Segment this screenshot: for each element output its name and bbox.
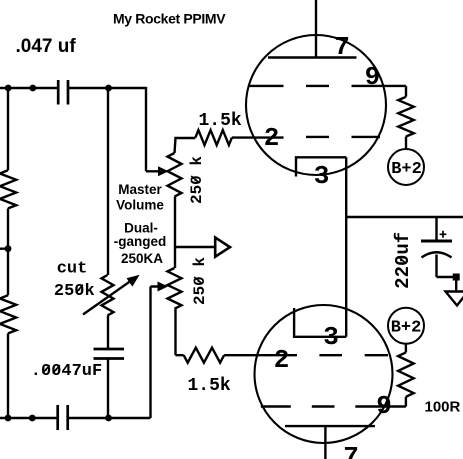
wire resistor to B+2 top <box>405 137 407 150</box>
svg-text:9: 9 <box>376 391 392 421</box>
wire 220uf top lead <box>435 217 437 241</box>
ground symbol <box>446 292 463 306</box>
svg-text:cut: cut <box>57 259 88 278</box>
wire V1 pin7 top lead <box>315 0 317 58</box>
wire cut branch vertical <box>107 88 109 418</box>
wire resistor to B+2 bottom <box>405 344 407 353</box>
potentiometer master volume bottom 250k <box>168 268 182 309</box>
svg-text:7: 7 <box>343 442 359 459</box>
V2 cathode notch pin3 <box>294 308 346 337</box>
capacitor 220uf curved plate <box>422 252 452 257</box>
svg-text:B+2: B+2 <box>391 319 422 338</box>
resistor left upper <box>0 170 16 208</box>
resistor 1.5k bottom <box>184 348 224 363</box>
V1 plate line <box>268 56 357 58</box>
wire bottom pot to 1.5k <box>176 308 184 355</box>
svg-text:1.5k: 1.5k <box>188 376 231 396</box>
supply circle B+2 top <box>388 149 424 185</box>
V1 grid dashed line pin2 <box>306 136 380 138</box>
V2 grid dashed line pin2 <box>319 354 388 356</box>
wire V1 pin3 down to V2 pin3 <box>345 157 347 336</box>
svg-text:100R: 100R <box>425 399 461 416</box>
tube V2 envelope <box>255 305 393 443</box>
wire top pot to 1.5k <box>175 138 196 153</box>
wire to phase buffer <box>175 246 215 248</box>
wiper arrow bottom pot <box>158 282 169 292</box>
capacitor bottom coupling (plates) <box>58 405 68 430</box>
svg-text:.047 uf: .047 uf <box>16 36 77 57</box>
tube V1 envelope <box>246 35 386 175</box>
V1 cathode notch pin3 <box>296 157 346 176</box>
wire pot center link <box>174 197 176 268</box>
node dot top bus <box>29 85 36 92</box>
wire 1.5k to V1 grid <box>232 136 284 138</box>
supply circle B+2 bottom <box>388 308 424 344</box>
svg-text:2: 2 <box>264 123 280 153</box>
node dot 220uf ground <box>453 274 460 281</box>
wire top bus <box>0 87 146 89</box>
svg-text:7: 7 <box>334 32 350 62</box>
resistor V1 B+2 feed <box>398 97 414 137</box>
svg-text:3: 3 <box>314 161 330 191</box>
wire left vertical <box>7 88 9 418</box>
wire input stub left edge <box>0 247 8 249</box>
svg-text:-ganged: -ganged <box>114 234 167 249</box>
node dot bottom bus <box>29 415 36 422</box>
node dot left mid <box>5 245 12 252</box>
wire V2 pin9 to resistor <box>378 397 406 407</box>
potentiometer master volume top 250k <box>168 153 182 197</box>
svg-text:9: 9 <box>365 62 381 92</box>
node dot bottom cut branch <box>105 415 112 422</box>
potentiometer cut 250k <box>102 275 114 316</box>
wire V2 pin7 bottom lead <box>324 426 326 459</box>
node dot top cut branch <box>105 85 112 92</box>
slash zero 250 k bottom <box>194 277 202 284</box>
svg-text:250KA: 250KA <box>121 251 163 266</box>
wire bottom bus <box>0 417 151 419</box>
svg-text:250 k: 250 k <box>191 257 209 305</box>
capacitor .047 uf (plates) <box>58 80 68 105</box>
wiper arrow top pot <box>158 166 169 176</box>
plus sign <box>440 231 447 238</box>
wiper arrow of cut pot <box>83 280 132 315</box>
slash zero 250 k top <box>191 176 199 183</box>
slash zeros .0047uF <box>43 365 50 373</box>
capacitor .0047uF (plates) <box>94 349 125 359</box>
wire V1 pin9 to resistor <box>352 86 407 97</box>
slash zero 220uf <box>398 256 406 263</box>
svg-text:B+2: B+2 <box>391 160 422 179</box>
svg-text:My Rocket PPIMV: My Rocket PPIMV <box>113 11 226 27</box>
resistor 1.5k top <box>195 130 232 145</box>
V1 screen dashed line pin9 <box>248 85 329 87</box>
capacitor 220uf plus plate <box>421 240 452 243</box>
wire bottom pot wiper down to bus <box>151 287 158 419</box>
svg-text:250 k: 250 k <box>188 156 206 204</box>
svg-text:3: 3 <box>323 322 339 352</box>
resistor 100R <box>398 352 414 396</box>
node dot top-left <box>5 85 12 92</box>
buffer triangle output <box>215 238 230 257</box>
V2 heater line <box>285 425 375 427</box>
svg-text:.0047uF: .0047uF <box>31 362 102 381</box>
svg-text:2: 2 <box>274 345 290 375</box>
slash zero cut 250k <box>76 285 83 293</box>
svg-text:Master: Master <box>118 182 162 197</box>
resistor left lower <box>0 295 16 333</box>
wire top bus to wiper of top pot <box>146 87 161 171</box>
wire 220uf bottom lead <box>437 255 457 292</box>
svg-text:1.5k: 1.5k <box>199 111 242 131</box>
svg-text:250k: 250k <box>54 282 95 301</box>
svg-text:Volume: Volume <box>116 198 164 213</box>
wire 1.5k to V2 grid <box>224 354 297 356</box>
V2 screen dashed line pin9 <box>261 405 379 407</box>
node dot bottom-left <box>5 415 12 422</box>
wire B+ node bus <box>346 216 463 218</box>
